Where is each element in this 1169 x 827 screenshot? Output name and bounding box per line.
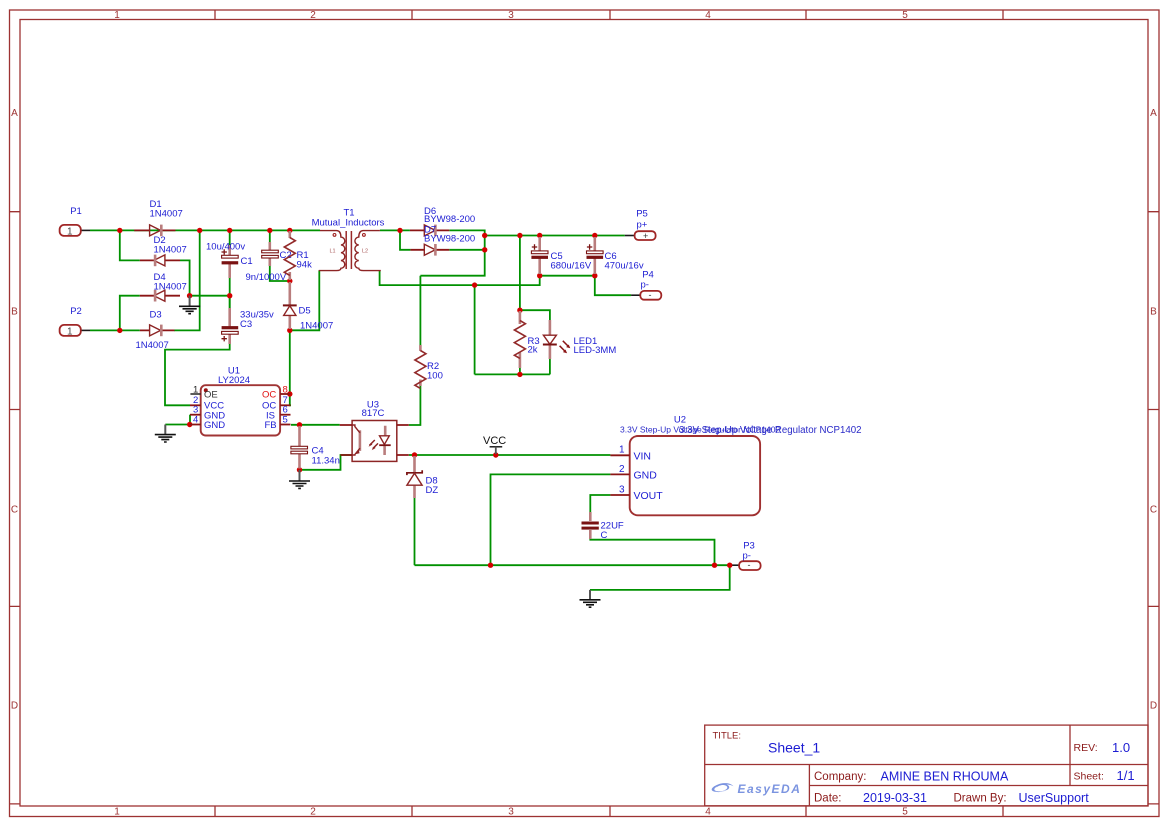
junction dot sec return (472, 282, 477, 287)
svg-text:FB: FB (265, 420, 277, 431)
svg-text:D5: D5 (299, 305, 311, 316)
svg-text:1/1: 1/1 (1117, 768, 1135, 783)
ground near C4 (289, 470, 310, 489)
svg-text:DZ: DZ (426, 485, 439, 496)
svg-text:P5: P5 (636, 209, 648, 220)
junction dot P3 gnd (727, 563, 732, 568)
svg-text:1: 1 (114, 807, 120, 818)
wire R2 column (409, 276, 421, 425)
U1 pin 1 OE (190, 393, 200, 395)
U1 pin 6 IS (280, 414, 290, 416)
svg-text:4: 4 (705, 10, 711, 21)
capacitor C1 (206, 242, 253, 278)
U3 light arrows (370, 440, 375, 445)
svg-text:2: 2 (619, 464, 625, 475)
U1 pin 2 VCC (190, 404, 201, 406)
svg-text:10u/400v: 10u/400v (206, 242, 245, 253)
wire D5 node down to U1 OC pins (290, 330, 291, 405)
svg-text:680u/16V: 680u/16V (551, 260, 592, 271)
wire C2 column (270, 230, 290, 281)
junction dots minus rail (537, 273, 542, 278)
wire P2 to D3 (90, 329, 140, 331)
svg-text:2019-03-31: 2019-03-31 (863, 791, 927, 805)
diode D6 (410, 206, 475, 236)
svg-text:A: A (11, 108, 18, 119)
svg-text:C: C (1150, 504, 1157, 515)
wire P2 pin black (81, 329, 90, 331)
wire dot120 down to D2 row (120, 230, 140, 260)
wire C6 column (594, 236, 596, 276)
junction dot D4 ground node (187, 293, 192, 298)
LED LED1 (543, 320, 616, 359)
ground near P3 (580, 590, 601, 607)
svg-text:P1: P1 (70, 206, 82, 217)
svg-text:1N4007: 1N4007 (154, 244, 187, 255)
svg-text:C: C (601, 530, 608, 541)
svg-text:Mutual_Inductors: Mutual_Inductors (312, 218, 385, 229)
junction dot U1 pin8 (287, 391, 292, 396)
svg-text:P2: P2 (70, 306, 82, 317)
wire P1 pin black (81, 229, 90, 231)
svg-text:1N4007: 1N4007 (150, 208, 183, 219)
svg-text:AMINE BEN RHOUMA: AMINE BEN RHOUMA (881, 770, 1009, 784)
capacitor C4 (291, 426, 340, 469)
wire R3 column bottom (519, 368, 521, 374)
optocoupler U3 817C (340, 400, 409, 462)
svg-text:REV:: REV: (1074, 742, 1098, 754)
wire P4 pin black (631, 294, 640, 296)
svg-text:2: 2 (310, 807, 316, 818)
svg-text:Sheet:: Sheet: (1074, 771, 1104, 783)
diode D7 (410, 225, 475, 256)
svg-text:B: B (11, 307, 18, 318)
svg-text:94k: 94k (297, 259, 313, 270)
svg-text:1: 1 (114, 10, 120, 21)
wire C5 column (539, 236, 541, 276)
wire P2 node up to D4 row (120, 296, 140, 331)
svg-text:B: B (1150, 307, 1157, 318)
svg-text:1N4007: 1N4007 (300, 321, 333, 332)
svg-text:5: 5 (902, 807, 908, 818)
wire minus rail C5-C6 (540, 275, 595, 277)
svg-text:VIN: VIN (634, 450, 652, 462)
wire D4 node to C1 node (190, 295, 230, 297)
wire D7 node down to R2 top (420, 236, 484, 276)
U1 pin 4 GND (190, 424, 201, 426)
junction dots top rail (117, 228, 122, 233)
wire LED return rail (475, 373, 550, 375)
svg-text:1: 1 (67, 326, 73, 337)
zener D8 (407, 456, 438, 498)
svg-text:3: 3 (508, 10, 514, 21)
junction dot U1 pin4 (187, 422, 192, 427)
svg-text:817C: 817C (362, 408, 385, 419)
U3 phototransistor (359, 430, 362, 451)
svg-text:TITLE:: TITLE: (713, 731, 742, 742)
wire C4 column (299, 425, 301, 470)
wire D6 out jog down to +rail (449, 230, 484, 235)
wire D7 out to rail jog (449, 249, 484, 251)
svg-text:p-: p- (641, 280, 649, 291)
svg-text:EasyEDA: EasyEDA (738, 782, 802, 796)
svg-text:LY2024: LY2024 (218, 375, 250, 386)
wire U3 out node to U2 VIN (409, 454, 611, 456)
bottom column ticks (215, 806, 1003, 817)
junction dot P2 node (117, 328, 122, 333)
wire D2 out to D4 node (180, 260, 190, 295)
junction dot R3 top (517, 308, 522, 313)
U1 pin 3 GND (190, 414, 201, 416)
ground near D4 (179, 296, 200, 314)
diode D1 (134, 199, 183, 236)
svg-text:L2: L2 (362, 249, 368, 255)
junction dot U2 gnd (488, 563, 493, 568)
svg-text:Company:: Company: (814, 771, 866, 783)
svg-text:-: - (649, 290, 652, 300)
T1 polarity dots (333, 234, 336, 237)
wire bottom gnd rail to P3 (415, 564, 730, 566)
svg-text:5: 5 (902, 10, 908, 21)
wire C3 column top (229, 296, 231, 309)
wire P3 node down to ground (590, 565, 730, 590)
svg-text:2: 2 (310, 10, 316, 21)
svg-text:2k: 2k (528, 344, 538, 355)
connector P1 (60, 206, 82, 237)
svg-text:5: 5 (283, 415, 288, 426)
svg-text:LED-3MM: LED-3MM (574, 345, 617, 356)
svg-text:470u/16v: 470u/16v (605, 260, 644, 271)
svg-text:D: D (11, 701, 18, 712)
wire P1 to top rail (90, 229, 320, 231)
U3 pin leads (340, 425, 409, 455)
wire C6 minus to P4 (595, 276, 631, 296)
wire U1 pin7 up from D5 node (290, 393, 291, 395)
wire +rail down to R3 (519, 236, 521, 311)
wire +rail to P5 (485, 235, 625, 237)
wire P3 pin black (730, 564, 739, 566)
resistor R3 (514, 311, 539, 368)
svg-text:p+: p+ (637, 220, 648, 231)
wire rail down to D3 row (174, 230, 200, 330)
capacitor C2 (246, 242, 292, 283)
connector P3 (739, 541, 761, 571)
resistor R2 (415, 345, 443, 388)
EasyEDA logo (712, 782, 802, 796)
junction dot R1-C2-D5 node (287, 278, 292, 283)
WIRES (81, 230, 739, 590)
T1 primary winding L1 (319, 231, 345, 271)
svg-text:3.3V Step-Up Voltage Regulator: 3.3V Step-Up Voltage Regulator NCP1402 (679, 425, 862, 436)
svg-text:VCC: VCC (483, 435, 506, 447)
wire P5 pin black (625, 235, 635, 237)
capacitor C5 (531, 237, 591, 274)
wire C4 bottom jog to U3 pin (300, 455, 353, 470)
T1 secondary winding L2 (355, 231, 381, 271)
svg-text:GND: GND (204, 420, 225, 431)
svg-text:4: 4 (705, 807, 711, 818)
wire D7 branch from rail (400, 230, 410, 249)
svg-text:1.0: 1.0 (1112, 740, 1130, 755)
U1 pin 8 OC (280, 393, 290, 395)
connector P4 (640, 270, 661, 300)
svg-text:U2: U2 (674, 414, 686, 425)
junction dot C4 gnd (297, 467, 302, 472)
diode D4 (140, 272, 187, 302)
U1 pin 5 FB (280, 424, 290, 426)
wire T1 sec bottom to C5 minus rail (380, 270, 540, 285)
svg-text:C1: C1 (241, 256, 253, 267)
PARTS1 (60, 199, 385, 351)
svg-text:VOUT: VOUT (634, 490, 664, 502)
diode D5 (283, 282, 333, 332)
junction dot D5 bottom node (287, 328, 292, 333)
svg-text:L1: L1 (330, 249, 336, 255)
svg-text:Sheet_1: Sheet_1 (768, 740, 820, 756)
capacitor C3 (222, 308, 275, 344)
connector P5 (635, 209, 656, 241)
junction dot D7 node (482, 247, 487, 252)
connector P2 (60, 306, 82, 337)
net label VCC (483, 435, 506, 454)
U3 LED (383, 426, 386, 455)
wire D8 column (414, 497, 416, 565)
svg-text:-: - (748, 560, 751, 570)
svg-text:11.34n: 11.34n (312, 456, 340, 467)
resistor R1 (284, 231, 312, 280)
TITLEBLOCK (705, 725, 1148, 806)
T1 core (346, 231, 351, 269)
right row ticks (1148, 212, 1159, 804)
IC U2 NCP1402 (610, 414, 861, 515)
junction dots + rail (482, 233, 487, 238)
junction dot R3 bottom (517, 372, 522, 377)
U2 pin 3 VOUT (610, 494, 629, 496)
wire U1 pin3 jog to pin4 (189, 415, 191, 425)
svg-text:4: 4 (193, 415, 198, 426)
wire U1 pin4 to ground (165, 424, 190, 426)
U2 pin 2 GND (610, 473, 629, 475)
wire sec return down (474, 285, 476, 374)
svg-text:Drawn By:: Drawn By: (954, 792, 1007, 804)
wire cap C bottom to P3 node (590, 539, 714, 566)
svg-text:9n/1000V: 9n/1000V (246, 272, 287, 283)
svg-text:BYW98-200: BYW98-200 (424, 233, 475, 244)
svg-text:3: 3 (508, 807, 514, 818)
svg-text:D3: D3 (150, 310, 162, 321)
wire U2 VOUT jog to cap C (590, 495, 610, 512)
svg-text:Date:: Date: (814, 792, 842, 804)
wire U1 FB to C4 node (291, 424, 340, 426)
wire R3 node to LED1 top (520, 310, 550, 321)
svg-text:D: D (1150, 701, 1157, 712)
left row ticks (10, 212, 21, 804)
svg-text:GND: GND (634, 469, 658, 481)
diode D3 (136, 310, 175, 352)
junction dot C1 mid node (227, 293, 232, 298)
svg-text:3: 3 (619, 484, 625, 495)
transformer T1 (312, 208, 385, 271)
svg-text:1: 1 (193, 384, 198, 395)
svg-text:100: 100 (427, 370, 443, 381)
junction dot cap C return (712, 563, 717, 568)
svg-text:BYW98-200: BYW98-200 (424, 214, 475, 225)
wire D5 bottom node right to T1 primary return (290, 270, 320, 330)
wire T1 sec top to D6 (380, 229, 410, 231)
svg-text:C: C (11, 504, 18, 515)
U1 pin 7 OC (280, 404, 290, 406)
svg-text:p-: p- (743, 551, 751, 562)
svg-text:+: + (643, 231, 648, 241)
wire C3 bottom to U1 VCC (165, 343, 230, 405)
svg-text:1N4007: 1N4007 (136, 340, 169, 351)
svg-text:8: 8 (283, 384, 288, 395)
svg-text:OE: OE (204, 390, 218, 401)
DOTS (117, 228, 732, 568)
junction dot FB-C4 (297, 422, 302, 427)
ground near U1 (155, 425, 176, 443)
wire C1 column (229, 230, 231, 308)
PARTS2 (155, 206, 662, 442)
svg-text:OC: OC (262, 390, 276, 401)
title block outline (705, 725, 1148, 806)
svg-text:UserSupport: UserSupport (1019, 791, 1090, 805)
IC U1 LY2024 (190, 366, 291, 436)
PARTS3 (289, 400, 862, 608)
capacitor C6 (587, 237, 644, 274)
diode D2 (140, 235, 187, 266)
svg-text:A: A (1150, 108, 1157, 119)
svg-text:C3: C3 (240, 319, 252, 330)
wire LED1 bottom (549, 359, 551, 375)
junction dot U3 out D8 (412, 452, 417, 457)
wire R1 bottom node to D5 (289, 230, 291, 236)
top column ticks (215, 10, 1003, 20)
svg-text:1N4007: 1N4007 (154, 281, 187, 292)
junction dot VCC (493, 452, 498, 457)
capacitor C 22UF (582, 512, 624, 541)
wire U2 GND left jog down (491, 474, 611, 565)
svg-text:1: 1 (619, 445, 625, 456)
U2 pin 1 VIN (610, 454, 629, 456)
svg-text:1: 1 (67, 226, 73, 237)
